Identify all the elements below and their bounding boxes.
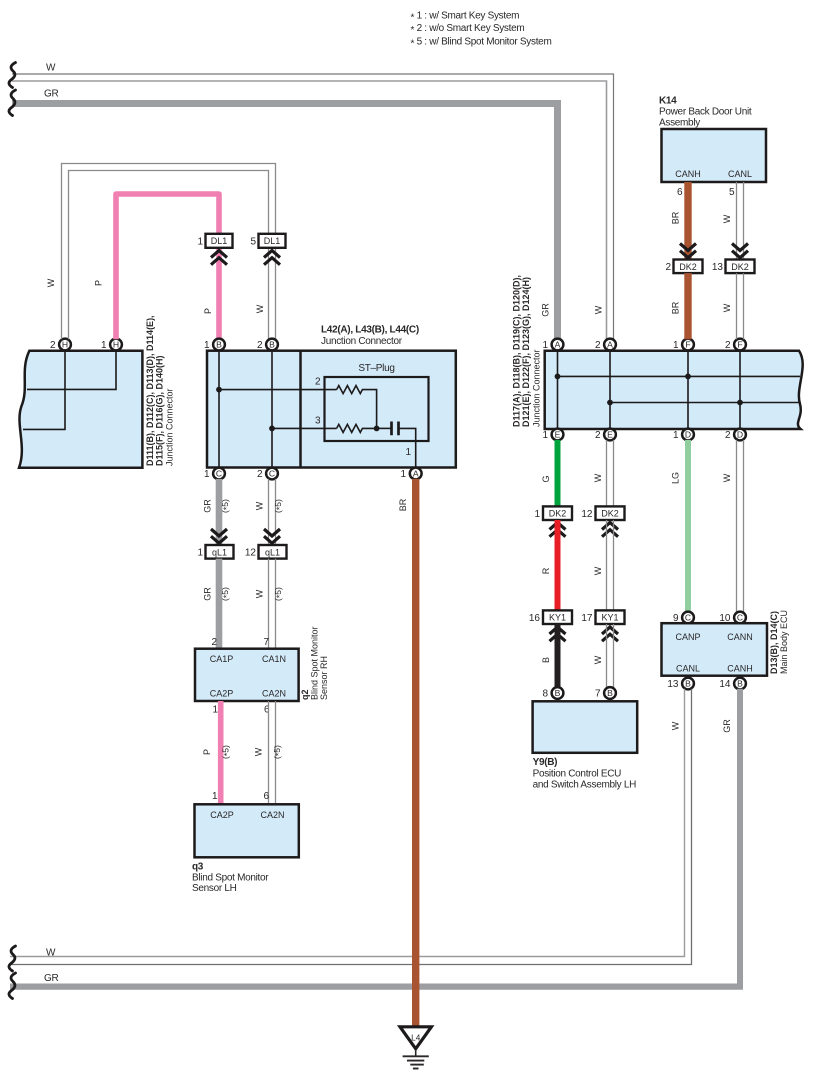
svg-text:Blind Spot Monitor: Blind Spot Monitor (192, 873, 269, 884)
svg-text:D111(B), D112(C), D113(D), D11: D111(B), D112(C), D113(D), D114(E), (145, 315, 155, 466)
svg-text:5: 5 (729, 187, 735, 198)
svg-text:Main Body ECU: Main Body ECU (779, 610, 789, 674)
svg-text:2: 2 (211, 637, 217, 648)
svg-text:GR: GR (203, 587, 213, 601)
pin 1 H (left box) (101, 339, 122, 351)
svg-text:1: 1 (405, 447, 411, 458)
svg-text:W: W (594, 305, 604, 314)
junction connector L42(A), L43(B), L44(C) (207, 351, 456, 468)
svg-text:P: P (203, 308, 213, 314)
svg-text:CA1N: CA1N (262, 654, 286, 664)
wire W (top CAN bus, white) (12, 74, 614, 339)
svg-text:KY1: KY1 (601, 613, 618, 623)
internal wire from pin 1H (27, 350, 116, 389)
wire P (q2 CA2P to q3 CA2P) (218, 701, 224, 804)
svg-text:(*5): (*5) (273, 499, 285, 513)
svg-text:D: D (737, 429, 743, 439)
svg-text:GR: GR (44, 89, 58, 100)
svg-text:C: C (737, 612, 743, 622)
svg-text:CA2P: CA2P (210, 689, 234, 699)
svg-text:3: 3 (315, 416, 321, 427)
connector 12 DK2 (581, 506, 624, 520)
svg-text:KY1: KY1 (549, 613, 566, 623)
pin 2 A (D117 top) (595, 339, 616, 351)
svg-text:B: B (216, 339, 222, 349)
svg-text:14: 14 (719, 679, 731, 690)
junction connector D117(A)-D124(H) (545, 351, 803, 429)
pin 13 B (main body ECU) (667, 678, 694, 690)
svg-text:W: W (46, 278, 56, 287)
q2 designation (300, 626, 329, 700)
chevron below 1 DL1 (pointing up) (211, 251, 227, 265)
svg-text:B: B (685, 678, 691, 688)
legend note 5 (411, 37, 552, 50)
connector 1 DL1 (197, 234, 232, 248)
position control ECU and switch assembly LH Y9 (533, 701, 638, 753)
svg-text:Blind Spot Monitor: Blind Spot Monitor (310, 626, 320, 700)
svg-text:CA2N: CA2N (262, 689, 286, 699)
svg-text:H: H (113, 339, 119, 349)
internal wire 2A-2E column (609, 350, 611, 430)
svg-text:2: 2 (257, 469, 263, 480)
wire W (KY1 to Y9 pin 7) (607, 624, 614, 688)
break symbol (top GR) (9, 90, 16, 116)
svg-text:1: 1 (212, 791, 218, 802)
chevron below 1 DK2 (pointing up) (550, 523, 566, 537)
pin 2 C (257, 468, 278, 480)
ST-Plug box (325, 377, 429, 441)
svg-text:(*5): (*5) (220, 587, 232, 601)
svg-text:* 5 : w/ Blind Spot Monitor Sy: * 5 : w/ Blind Spot Monitor System (411, 37, 552, 50)
svg-text:DL1: DL1 (211, 236, 228, 246)
svg-text:G: G (541, 475, 551, 482)
pin 2 H (left box) (50, 339, 71, 351)
svg-text:W: W (593, 566, 603, 575)
wire GR (qL1 to q2 pin 2) (216, 559, 223, 649)
svg-text:W: W (593, 473, 603, 482)
svg-text:Y9(B): Y9(B) (533, 757, 558, 768)
svg-text:L42(A), L43(B), L44(C): L42(A), L43(B), L44(C) (321, 325, 419, 336)
pin 1 C (204, 468, 225, 480)
junction dot on 1B column (216, 387, 222, 393)
svg-text:C: C (269, 468, 275, 478)
internal wire 1F-1D column (687, 350, 689, 430)
internal wire from pin 2H (23, 350, 65, 429)
internal wire 1A-1E column (557, 350, 559, 430)
svg-text:* 1 : w/ Smart Key System: * 1 : w/ Smart Key System (411, 11, 520, 24)
internal wire 1B to 1C (218, 350, 220, 468)
svg-text:q2: q2 (300, 689, 310, 700)
svg-text:CANH: CANH (727, 664, 753, 674)
svg-text:CANP: CANP (675, 632, 700, 642)
svg-text:A: A (607, 339, 613, 349)
svg-text:CA1P: CA1P (210, 654, 234, 664)
svg-text:F: F (685, 339, 690, 349)
pin 2 F (D117 top) (725, 339, 746, 351)
wire GR (1C to qL1) (216, 479, 223, 545)
Y9 designation (533, 757, 637, 791)
svg-text:C: C (216, 468, 222, 478)
svg-text:2: 2 (725, 430, 731, 441)
connector 13 DK2 (712, 260, 755, 274)
svg-text:D121(E), D122(F), D123(G), D12: D121(E), D122(F), D123(G), D124(H) (521, 277, 531, 427)
connector 12 qL1 (245, 545, 287, 559)
pin 14 B (main body ECU) (719, 678, 746, 690)
break symbol (top W) (9, 63, 16, 88)
svg-text:CANH: CANH (675, 169, 701, 179)
svg-text:C: C (685, 612, 691, 622)
junction dot 2A column on bus (607, 400, 613, 406)
svg-text:and Switch Assembly LH: and Switch Assembly LH (533, 780, 637, 791)
svg-text:A: A (413, 468, 419, 478)
blind spot monitor sensor LH q3 (195, 804, 299, 857)
svg-text:7: 7 (263, 637, 269, 648)
wire W (main body ECU pin 13 to bottom CAN bus, white) (10, 689, 692, 965)
chevron above 2 DK2 (pointing down) (680, 244, 696, 258)
ground L4 (400, 1027, 431, 1069)
wire W (K14 CANL to 13 DK2) (737, 182, 744, 260)
svg-text:DK2: DK2 (679, 262, 697, 272)
pin 1 A (400, 468, 421, 480)
svg-text:2: 2 (725, 340, 731, 351)
legend note 2 (411, 23, 525, 36)
svg-text:(*5): (*5) (221, 745, 233, 759)
wire LG (1D to main body ECU pin 9) (685, 440, 691, 612)
svg-text:P: P (202, 749, 212, 755)
pin 2 D (D117 bottom) (725, 429, 746, 441)
pin 1 A (D117 top) (542, 339, 563, 351)
svg-text:1: 1 (673, 340, 679, 351)
junction dot 1F column on bus (685, 374, 691, 380)
internal wire node B1 to ST-plug pin 2 (219, 389, 337, 391)
chevron above 1 qL1 (pointing down) (211, 529, 227, 543)
internal wire 2B to 2C (271, 350, 273, 468)
label D111 block designators (145, 315, 175, 466)
pin 7 B (Y9) (595, 687, 616, 699)
svg-text:D117(A), D118(B), D119(C), D12: D117(A), D118(B), D119(C), D120(D), (512, 275, 522, 427)
wire BR (DK2 to 1F) (684, 273, 691, 339)
svg-text:B: B (541, 657, 551, 663)
wire R (DK2 to 16 KY1) (555, 520, 561, 610)
L42 internal divider (299, 351, 302, 468)
svg-text:DK2: DK2 (601, 509, 619, 519)
internal wire node B2 to ST-plug pin 3 (272, 427, 337, 429)
svg-text:GR: GR (44, 973, 58, 984)
wire W (qL1 to q2 pin 7) (269, 559, 276, 649)
svg-text:5: 5 (250, 237, 256, 248)
wire B (KY1 to Y9 pin 8) (555, 624, 561, 688)
svg-text:12: 12 (245, 548, 257, 559)
svg-text:GR: GR (541, 303, 551, 317)
svg-text:L4: L4 (411, 1034, 421, 1043)
svg-text:DL1: DL1 (264, 236, 281, 246)
pin 1 F (D117 top) (673, 339, 694, 351)
svg-text:1: 1 (212, 705, 218, 716)
wire P (1H to 1 DL1 to 1B, pink) (116, 194, 219, 339)
svg-text:16: 16 (529, 613, 541, 624)
svg-text:D: D (685, 429, 691, 439)
wire W (DK2 to 17 KY1) (607, 520, 614, 610)
pin 2 E (D117 bottom) (595, 429, 616, 441)
main body ECU D13(B), D14(C) (662, 623, 768, 676)
junction connector D111(B),D112(C),D113(D),D114(E),D115(F),D116(G),D140(H) (19, 351, 142, 468)
svg-text:H: H (62, 339, 68, 349)
svg-text:W: W (254, 747, 264, 756)
pin 1 E (D117 bottom) (542, 429, 563, 441)
svg-text:6: 6 (263, 791, 269, 802)
svg-text:A: A (555, 339, 561, 349)
svg-text:CA2N: CA2N (260, 810, 284, 820)
break symbol (bottom W) (9, 946, 16, 971)
K14 designation (659, 96, 752, 129)
junction dot (resistors to capacitor) (374, 426, 380, 432)
junction dot 1A column on bus (555, 374, 561, 380)
svg-text:Junction Connector: Junction Connector (165, 388, 175, 466)
junction dot on 2B column (269, 426, 275, 432)
svg-text:(*5): (*5) (220, 499, 232, 513)
svg-text:(*5): (*5) (273, 587, 285, 601)
svg-text:17: 17 (581, 613, 593, 624)
svg-text:2: 2 (595, 430, 601, 441)
svg-text:W: W (593, 655, 603, 664)
svg-text:GR: GR (722, 719, 732, 733)
svg-text:E: E (607, 429, 613, 439)
svg-text:CA2P: CA2P (210, 810, 234, 820)
svg-text:CANL: CANL (728, 169, 752, 179)
svg-text:8: 8 (542, 689, 548, 700)
pin 1 B (204, 339, 225, 351)
svg-text:P: P (94, 280, 104, 286)
svg-text:D115(F), D116(G), D140(H): D115(F), D116(G), D140(H) (155, 355, 165, 466)
chevron below 17 KY1 (pointing up) (602, 627, 618, 641)
connector 17 KY1 (581, 610, 624, 624)
chevron above 13 DK2 (pointing down) (732, 244, 748, 258)
svg-text:F: F (737, 339, 742, 349)
svg-text:W: W (255, 304, 265, 313)
pin 9 C (main body ECU) (673, 612, 694, 624)
svg-text:1: 1 (542, 340, 548, 351)
main body ECU designation (769, 610, 789, 674)
svg-text:CANL: CANL (676, 664, 700, 674)
svg-text:ST–Plug: ST–Plug (358, 363, 394, 374)
svg-text:B: B (269, 339, 275, 349)
svg-text:DK2: DK2 (549, 509, 567, 519)
svg-text:q3: q3 (192, 862, 204, 873)
svg-text:Sensor RH: Sensor RH (319, 656, 329, 700)
svg-text:B: B (737, 678, 743, 688)
svg-text:Assembly: Assembly (659, 118, 700, 129)
svg-text:1: 1 (534, 509, 540, 520)
svg-text:2: 2 (50, 340, 56, 351)
svg-text:W: W (722, 303, 732, 312)
internal bus CANL (610, 402, 799, 404)
svg-text:BR: BR (398, 498, 408, 511)
svg-text:1: 1 (400, 469, 406, 480)
power back door unit assembly K14 (662, 129, 767, 182)
svg-text:Junction Connector: Junction Connector (321, 336, 403, 347)
chevron below 12 DK2 (pointing up) (602, 523, 618, 537)
wire W (2E to 12 DK2) (607, 440, 614, 507)
junction dot 2F column on bus (737, 400, 743, 406)
wire W (2H to 5 DL1 to 2B, white) (62, 164, 276, 340)
wire GR (top CAN bus, gray) (12, 100, 561, 339)
svg-text:R: R (541, 567, 551, 574)
internal wire 2F-2D column (739, 350, 741, 430)
svg-text:* 2 : w/o Smart Key System: * 2 : w/o Smart Key System (411, 23, 525, 36)
svg-text:1: 1 (197, 237, 203, 248)
svg-text:W: W (722, 473, 732, 482)
svg-text:W: W (722, 214, 732, 223)
svg-text:13: 13 (712, 262, 724, 273)
blind spot monitor sensor RH q2 (195, 649, 299, 701)
pin 2 B (257, 339, 278, 351)
svg-text:2: 2 (595, 340, 601, 351)
wire W (q2 CA2N to q3 CA2N) (269, 701, 276, 804)
svg-text:LG: LG (671, 472, 681, 484)
internal bus CANH (558, 375, 801, 377)
connector 1 qL1 (197, 545, 233, 559)
svg-text:W: W (255, 501, 265, 510)
connector 1 DK2 (534, 506, 572, 520)
svg-text:W: W (46, 63, 56, 74)
wire G (1E to 1 DK2) (555, 440, 561, 507)
svg-text:DK2: DK2 (731, 262, 749, 272)
connector 5 DL1 (250, 234, 285, 248)
svg-text:Sensor LH: Sensor LH (192, 883, 237, 894)
svg-text:6: 6 (677, 187, 683, 198)
pin 10 C (main body ECU) (719, 612, 746, 624)
svg-text:B: B (555, 688, 561, 698)
chevron below 5 DL1 (pointing up) (264, 251, 280, 265)
svg-text:13: 13 (667, 679, 679, 690)
break symbol (bottom GR) (9, 973, 16, 999)
svg-text:2: 2 (257, 340, 263, 351)
L42 title (321, 325, 419, 348)
q3 designation (192, 862, 269, 895)
wire W (2C to qL1) (269, 479, 276, 545)
legend note 1 (411, 11, 520, 24)
capacitor (ST-plug) (377, 422, 416, 469)
svg-text:BR: BR (671, 301, 681, 314)
svg-text:2: 2 (315, 377, 321, 388)
connector 16 KY1 (529, 610, 572, 624)
svg-text:W: W (671, 721, 681, 730)
chevron above 12 qL1 (pointing down) (264, 529, 280, 543)
D117 block designators (512, 275, 542, 427)
pin 1 D (D117 bottom) (673, 429, 694, 441)
wire BR (L42 pin 1A to ground L4) (412, 479, 419, 1026)
svg-text:1: 1 (197, 548, 203, 559)
svg-text:K14: K14 (659, 96, 677, 107)
resistor (ST-plug upper) (337, 386, 377, 429)
wire W (DK2 to 2F) (737, 273, 744, 339)
svg-text:CANN: CANN (727, 632, 753, 642)
svg-text:(*5): (*5) (272, 745, 284, 759)
svg-text:Position Control ECU: Position Control ECU (533, 769, 622, 780)
svg-text:1: 1 (673, 430, 679, 441)
svg-text:BR: BR (671, 211, 681, 224)
wire W (2D to main body ECU pin 10) (737, 440, 744, 612)
svg-text:1: 1 (204, 340, 210, 351)
svg-text:12: 12 (581, 509, 593, 520)
svg-text:Power Back Door Unit: Power Back Door Unit (659, 107, 752, 118)
svg-text:E: E (555, 429, 561, 439)
wire BR (K14 CANH to 2 DK2) (684, 182, 691, 260)
svg-text:W: W (46, 948, 56, 959)
svg-text:7: 7 (595, 689, 601, 700)
svg-text:B: B (607, 688, 613, 698)
svg-text:GR: GR (203, 499, 213, 513)
pin 8 B (Y9) (542, 687, 563, 699)
svg-text:D13(B), D14(C): D13(B), D14(C) (769, 611, 779, 674)
svg-text:W: W (255, 589, 265, 598)
chevron below 16 KY1 (pointing up) (550, 627, 566, 641)
resistor (ST-plug lower) (337, 424, 377, 432)
svg-text:1: 1 (101, 340, 107, 351)
svg-text:2: 2 (665, 262, 671, 273)
connector 2 DK2 (665, 260, 702, 274)
wire GR (main body ECU pin 14 to bottom CAN bus, gray) (10, 689, 743, 990)
svg-text:qL1: qL1 (265, 547, 280, 557)
svg-text:qL1: qL1 (212, 547, 227, 557)
svg-text:1: 1 (204, 469, 210, 480)
svg-text:Junction Connector: Junction Connector (532, 349, 542, 427)
svg-text:1: 1 (542, 430, 548, 441)
